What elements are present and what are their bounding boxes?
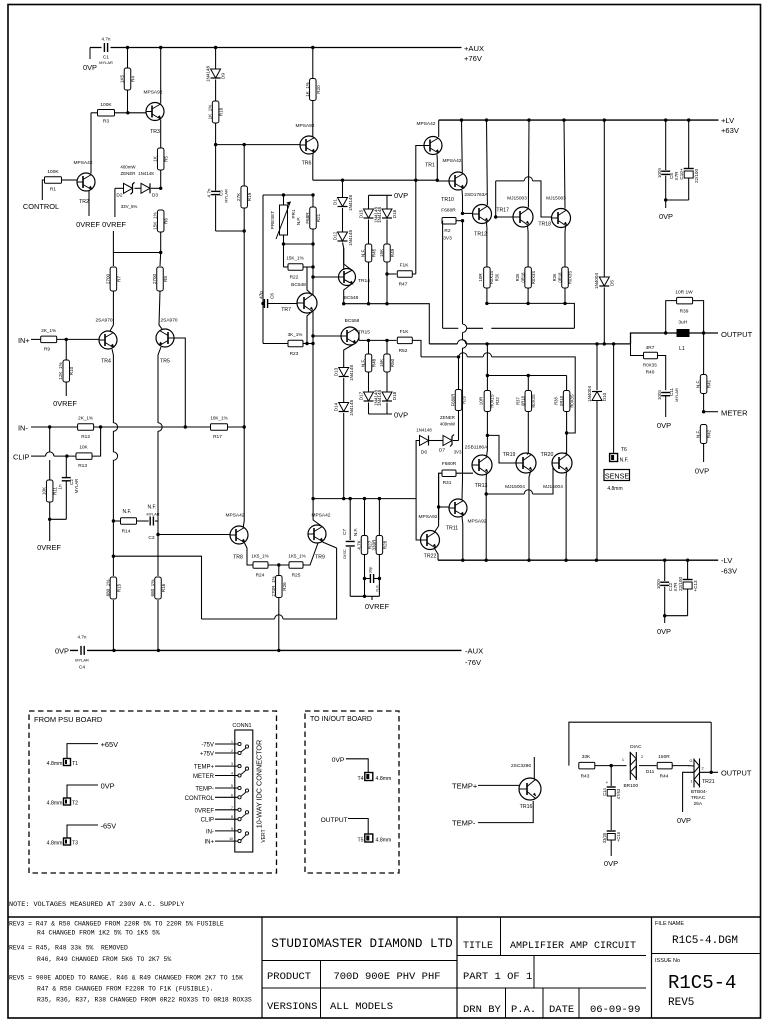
wire TR17 emitter [527,226,530,268]
svg-text:MPSA92: MPSA92 [468,519,487,525]
wire TR15 base [313,335,341,337]
svg-text:F1K: F1K [400,263,410,269]
svg-text:R15: R15 [116,583,121,592]
wire TR15 emitter [354,329,359,341]
wire TR13 collector [486,435,489,456]
wire D2 D3 row [115,187,124,189]
wire TR7 emitter [307,312,312,344]
svg-text:R40: R40 [646,370,655,376]
main vertical bus x=313 [312,229,314,499]
svg-text:R1C5-4: R1C5-4 [668,972,736,994]
resistor R48 [368,340,370,354]
svg-text:TR10: TR10 [441,197,454,203]
svg-text:10K: 10K [42,486,47,495]
capacitor C3 [149,517,151,526]
svg-text:+75V: +75V [200,752,214,758]
svg-text:MYLAR: MYLAR [224,189,229,203]
svg-text:L1: L1 [679,346,685,352]
svg-text:10: 10 [229,837,233,841]
svg-text:IN-: IN- [206,829,214,835]
svg-text:700D 900E PHV PHF: 700D 900E PHV PHF [333,971,440,983]
svg-text:TEMP-: TEMP- [452,819,476,828]
svg-text:R13: R13 [78,463,87,469]
transistor TR14 [339,269,356,286]
svg-text:33K: 33K [582,754,591,760]
wire emitter chain x462 [462,221,464,324]
transistor TR9 [308,525,326,543]
svg-text:BTB04-: BTB04- [691,789,708,795]
svg-text:R44: R44 [660,774,669,780]
resistor R17 [211,424,228,431]
svg-text:5: 5 [231,784,233,788]
svg-text:MJ15004: MJ15004 [543,484,563,490]
wire C5 R19 join [216,231,245,427]
svg-text:F680R: F680R [442,461,457,467]
svg-text:10K: 10K [79,445,88,450]
svg-text:39p: 39p [368,566,373,573]
svg-text:VERT: VERT [261,829,267,842]
svg-text:PRESET: PRESET [270,211,275,230]
svg-text:R52: R52 [399,348,408,354]
svg-text:R5: R5 [164,156,169,162]
diode D10 [596,344,598,390]
resistor R2 [442,217,456,224]
resistor R19 [243,145,245,186]
+LV rail [439,119,719,121]
svg-text:0VP: 0VP [657,627,671,636]
svg-text:4.7n: 4.7n [207,188,212,197]
svg-text:2SA970: 2SA970 [95,318,112,324]
svg-text:MPSA42: MPSA42 [443,158,462,164]
svg-text:10-WAY IDC CONNECTOR: 10-WAY IDC CONNECTOR [255,740,264,828]
svg-text:4.8mm: 4.8mm [47,841,63,847]
svg-text:4.7n: 4.7n [78,635,87,640]
resistor R13 [76,453,92,460]
svg-text:T1: T1 [72,761,78,767]
wire 0VP stub D15 D16 [368,195,370,208]
svg-text:D15: D15 [358,209,363,218]
svg-text:R1C5-4.DGM: R1C5-4.DGM [672,935,738,947]
capacitor C6 [263,303,264,305]
svg-text:R2: R2 [444,228,450,234]
svg-text:1N4148: 1N4148 [349,365,354,382]
svg-text:0VREF: 0VREF [76,220,100,229]
svg-text:F680R: F680R [451,394,456,407]
wire to 0VREF [49,519,51,541]
resistor R3 [91,112,97,114]
transistor TR1 [424,137,442,155]
svg-text:R48: R48 [372,358,377,367]
svg-text:9: 9 [231,827,233,831]
svg-text:3uH: 3uH [678,320,687,326]
svg-text:15K_1%: 15K_1% [153,212,158,229]
svg-text:0VREF: 0VREF [102,220,126,229]
inductor L1 [677,329,690,337]
svg-text:2SD1763A: 2SD1763A [464,192,488,198]
svg-text:15K: 15K [379,358,384,367]
svg-text:TR3: TR3 [150,129,160,135]
resistor R52 [359,339,364,341]
resistor R38 [566,376,568,391]
svg-text:R21: R21 [316,213,321,222]
svg-text:3V3: 3V3 [443,236,452,242]
svg-text:TR20: TR20 [541,452,554,458]
svg-text:1N4148: 1N4148 [348,195,353,212]
svg-text:R17: R17 [213,434,222,440]
svg-text:330R: 330R [372,539,377,551]
svg-text:MPSA42: MPSA42 [312,513,331,519]
svg-text:2: 2 [231,749,233,753]
transistor TR22 [421,531,440,550]
wire TR6 emitter [312,154,314,181]
diode D9 [215,48,217,70]
capacitor C4 [78,645,87,656]
svg-text:2: 2 [641,755,643,759]
resistor R44 [657,762,672,769]
svg-text:-76V: -76V [465,658,482,667]
svg-text:R0X3S: R0X3S [643,363,657,368]
svg-text:N.P.: N.P. [296,217,301,225]
transistor TR16 [519,778,541,800]
transistor TR2 [77,173,95,191]
svg-text:METER: METER [193,774,215,780]
wire TR19 emitter [529,472,531,561]
svg-text:METER: METER [721,409,748,418]
svg-text:47/63: 47/63 [616,788,621,799]
resistor R12 [78,424,94,431]
svg-text:33V_5%: 33V_5% [121,204,138,209]
svg-text:0VP: 0VP [677,816,691,825]
svg-text:N.F.: N.F. [696,430,701,438]
svg-text:10K_1%: 10K_1% [210,416,227,421]
capacitor C11 [661,392,670,394]
terminal T3 [64,838,71,845]
svg-text:4.8mm: 4.8mm [47,801,63,807]
svg-text:1N4148: 1N4148 [377,207,382,224]
wire TR20 base [486,493,524,495]
svg-text:0VP: 0VP [101,782,115,791]
wire output row [631,333,719,344]
wire TR5 collector [158,347,161,423]
zener D2 [124,183,133,193]
svg-text:OUTPUT: OUTPUT [321,817,348,824]
resistor R22 [288,264,303,271]
svg-text:DRN BY: DRN BY [463,1004,502,1016]
resistor R23 [288,340,303,347]
svg-text:8: 8 [231,815,233,819]
svg-text:R39: R39 [680,309,689,315]
wire IN- row [31,426,78,428]
svg-text:DISC: DISC [342,549,347,559]
svg-text:TR2: TR2 [79,199,89,205]
svg-text:0VP: 0VP [604,859,618,868]
diode D18 [386,372,388,392]
wire to 0VREF node [114,188,116,217]
svg-text:ALL MODELS: ALL MODELS [330,1001,393,1013]
svg-text:0VREF: 0VREF [37,543,61,552]
wire TR17 TR18 base feed [496,180,524,182]
svg-text:MPSA42: MPSA42 [417,121,436,127]
svg-text:T5: T5 [357,838,363,844]
svg-text:ZENER: ZENER [121,171,136,176]
svg-text:MYLAR: MYLAR [146,513,159,517]
main output bus [429,343,457,345]
svg-text:TR11: TR11 [446,526,458,532]
transistor TR6 [300,136,318,154]
diode D3 [141,183,150,193]
svg-text:680_1%: 680_1% [150,580,155,597]
svg-text:CONN1: CONN1 [232,723,251,729]
svg-text:+AUX: +AUX [464,44,484,53]
svg-text:N.F.: N.F. [361,249,366,257]
svg-text:R22: R22 [290,275,299,281]
wire TR22 emitter [435,549,439,561]
svg-text:2K_1%: 2K_1% [78,416,93,421]
svg-text:2SC3296: 2SC3296 [511,763,531,769]
svg-text:6: 6 [231,793,233,797]
svg-text:TEMP+: TEMP+ [452,782,478,791]
svg-text:D18: D18 [392,391,397,400]
svg-text:MPSA92: MPSA92 [419,514,438,520]
svg-text:270R_1%: 270R_1% [271,576,276,596]
svg-text:R46, R49 CHANGED FROM 5K6 TO 2: R46, R49 CHANGED FROM 5K6 TO 2K7 5% [37,956,171,963]
connector jumper [245,811,248,814]
wire IN+ row [31,338,41,340]
svg-text:MPSA92: MPSA92 [296,123,315,129]
svg-text:CONTROL: CONTROL [23,202,59,211]
svg-text:TR13: TR13 [475,483,488,489]
svg-text:R32: R32 [495,396,500,404]
svg-text:1n: 1n [58,484,63,490]
svg-text:C7: C7 [342,529,347,535]
svg-text:12K_1%: 12K_1% [58,362,63,379]
svg-text:T6: T6 [621,447,627,453]
net METER [704,411,718,413]
svg-text:4R7: 4R7 [646,345,655,351]
wire TR1 collector [438,120,440,137]
svg-text:3: 3 [231,762,233,766]
capacitor C12 [664,560,666,581]
title block outline [8,916,761,918]
diac D11 [629,752,631,780]
svg-text:R1: R1 [50,187,56,193]
wire NPN emitter bus [487,303,575,328]
svg-text:10R: 10R [478,273,483,282]
svg-text:R20: R20 [316,85,321,94]
wire TR2 collector [90,113,92,174]
svg-text:7: 7 [231,806,233,810]
svg-text:N.F.: N.F. [148,505,157,511]
svg-text:R18: R18 [219,107,224,116]
svg-text:R41: R41 [707,379,712,388]
wire triac loop top [569,722,711,765]
resistor R24 [253,562,268,569]
svg-text:25A: 25A [694,801,703,807]
svg-text:3K_1%: 3K_1% [288,332,303,337]
svg-text:D5: D5 [609,280,614,286]
svg-text:N.F.: N.F. [123,509,132,515]
wire TR8 collector [242,427,245,527]
svg-text:R16: R16 [161,583,166,592]
resistor R21 [312,195,314,207]
resistor R45 [365,244,372,262]
terminal T6 and SENSE [613,344,615,454]
svg-text:-65V: -65V [101,822,117,831]
wire TR19 base [487,435,516,463]
title block inner lines [262,960,457,962]
wire PNP top bus [487,375,566,377]
svg-text:N.F.: N.F. [353,528,358,536]
wire TR9 base stub [304,543,319,565]
resistor R7 [112,253,114,267]
wire TR3 emitter [160,48,162,104]
svg-text:TR19: TR19 [503,452,516,458]
resistor R20 [312,48,314,80]
capacitor C5 [215,145,217,191]
wire TR16 collector stub [533,757,535,779]
svg-text:T2: T2 [72,801,78,807]
svg-text:TRIAC: TRIAC [691,795,706,801]
wire TR14 base [313,276,339,278]
svg-text:CONTROL: CONTROL [185,796,215,802]
svg-text:TR16: TR16 [520,804,533,810]
svg-text:0VP: 0VP [332,757,345,764]
svg-text:-AUX: -AUX [465,647,483,656]
svg-text:OUTPUT: OUTPUT [721,769,752,778]
wire preset bottom row [284,243,314,245]
-AUX rail [70,649,462,651]
wire TR1 emitter [436,155,438,181]
svg-text:R30: R30 [494,273,499,281]
svg-text:P.A.: P.A. [511,1004,536,1016]
wire 0VP stub D17 D18 [369,413,393,415]
svg-text:SENSE: SENSE [605,472,630,481]
svg-text:TR21: TR21 [702,779,715,785]
svg-text:15K: 15K [379,248,384,257]
svg-text:R47: R47 [399,282,408,288]
svg-text:IN-: IN- [18,424,28,433]
capacitor C17 [365,578,371,580]
svg-text:TR4: TR4 [101,359,111,365]
wire TR10 collector [461,120,464,172]
svg-text:-LV: -LV [721,556,733,565]
diode D15 [364,209,374,218]
wire TR18 collector [564,120,565,208]
svg-text:400mW: 400mW [440,422,456,427]
svg-text:2SB1186A: 2SB1186A [465,445,488,451]
svg-text:4.8mm: 4.8mm [376,776,392,782]
wire TR10 base [437,180,449,182]
resistor R43 [579,762,595,769]
svg-text:N.F.: N.F. [620,458,629,464]
svg-text:F1K: F1K [400,329,410,335]
svg-text:T3: T3 [72,841,78,847]
svg-text:MYLAR: MYLAR [674,388,679,402]
svg-text:2SA970: 2SA970 [160,318,177,324]
svg-text:D17: D17 [358,391,363,400]
svg-text:D13: D13 [334,367,339,376]
wire TR20 emitter [565,472,567,561]
wire TR11 emitter [461,517,464,561]
svg-text:MJ15004: MJ15004 [505,484,525,490]
svg-text:R12: R12 [81,434,90,440]
connector jumper [245,789,248,792]
transistor TR3 [146,103,164,121]
resistor R8 [159,253,162,267]
svg-text:ZENER: ZENER [440,415,455,420]
connector jumper [245,767,248,770]
svg-text:R0X3S: R0X3S [531,394,536,407]
wire TR4 collector [112,349,113,423]
svg-text:+63V: +63V [721,126,740,135]
diode D1 [342,180,344,197]
transistor TR17 [513,207,533,227]
svg-text:OUTPUT: OUTPUT [721,330,753,339]
wire TR8 emitter [245,543,254,565]
svg-text:10R 1W: 10R 1W [675,290,693,296]
wire D6 D7 row [416,441,419,499]
resistor R4 [127,48,129,69]
resistor R6 [157,210,164,232]
wire lower bus [313,498,416,500]
svg-text:R29: R29 [462,395,467,403]
wire TR9 emitter [323,542,337,548]
svg-text:0R18: 0R18 [557,272,562,283]
svg-text:TR18: TR18 [538,222,551,228]
wire TR11 base [439,506,449,508]
connector jumper [245,832,248,835]
svg-text:R23: R23 [290,351,299,357]
svg-text:C6: C6 [270,293,275,299]
svg-text:0VREF: 0VREF [365,602,390,611]
resistor R32 [484,391,491,412]
svg-text:R47 & R50 CHANGED FROM F220R T: R47 & R50 CHANGED FROM F220R TO F1K (FUS… [37,986,213,993]
svg-text:0R18: 0R18 [521,395,526,406]
svg-text:R43: R43 [581,774,590,780]
diode D16 [382,209,392,218]
svg-text:TR22: TR22 [424,554,437,560]
svg-text:TITLE: TITLE [463,941,493,952]
svg-text:100n: 100n [656,578,661,589]
svg-text:0VP: 0VP [394,411,408,420]
wire TR15 collector [344,344,354,367]
transistor TR4 [99,331,117,349]
svg-text:1: 1 [622,758,624,762]
svg-text:R0X3S: R0X3S [531,271,536,284]
wire triac gate [683,772,694,812]
svg-text:0VP: 0VP [657,421,671,430]
resistor R31 [442,470,456,477]
wire R2 feedback down [442,221,444,329]
svg-text:TR6: TR6 [302,161,312,167]
svg-text:0VREF: 0VREF [53,399,77,408]
wire TR19 collector [527,453,528,455]
transistor TR5 [156,329,174,347]
wire TR2 emitter [88,191,90,216]
svg-text:REV5 = 900E ADDED TO RANGE. R4: REV5 = 900E ADDED TO RANGE. R46 & R49 CH… [9,975,243,982]
svg-text:R6: R6 [164,218,169,224]
resistor R15 [112,521,114,576]
svg-text:MJ15003: MJ15003 [546,196,566,202]
svg-text:TR5: TR5 [160,359,170,365]
-LV rail [438,559,718,561]
capacitor C8 [665,120,667,170]
dashed box TO IN/OUT BOARD [305,711,399,873]
svg-text:100K: 100K [100,102,112,108]
svg-text:TEMP-: TEMP- [195,787,214,793]
svg-text:R9: R9 [44,347,50,353]
wire 0VP join bottom right [665,615,688,617]
